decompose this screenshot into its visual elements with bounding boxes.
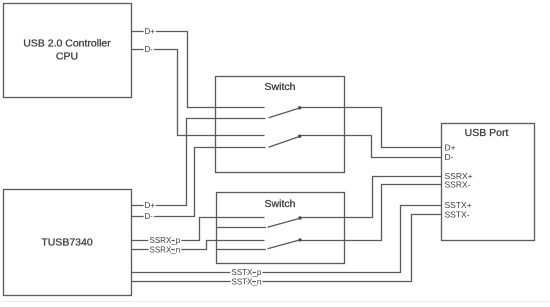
svg-text:CPU: CPU (56, 51, 78, 63)
svg-text:TUSB7340: TUSB7340 (41, 237, 93, 249)
switch1 output A to USB Port D+ (300, 108, 442, 148)
box: USB Port (442, 124, 535, 241)
wire: TUSB7340 D+ up to switch1 lower contact A (132, 119, 266, 206)
svg-text:SSTX+: SSTX+ (445, 200, 472, 210)
wire: TUSB7340 D- up to switch1 lower contact B (132, 148, 266, 217)
switch2 arm A (268, 218, 301, 227)
svg-text:SSTX-: SSTX- (445, 210, 470, 220)
box: TUSB7340 (4, 190, 132, 296)
switch1 arm A (269, 108, 300, 118)
switch1 pole dot A (298, 106, 301, 109)
svg-text:SSRX-: SSRX- (445, 180, 471, 190)
wire: switch2 lower contact stub B (217, 249, 267, 251)
svg-text:D-: D- (145, 45, 154, 54)
faint page rule at bottom (0, 301, 550, 303)
switch1 arm B (269, 136, 300, 147)
svg-text:SSRX_n: SSRX_n (150, 246, 181, 255)
box: Switch (upper) (216, 77, 345, 173)
svg-text:D+: D+ (145, 27, 156, 36)
svg-text:Switch: Switch (265, 198, 296, 210)
wire: TUSB7340 SSRX_n up to switch2 upper contact B (132, 241, 265, 250)
svg-text:D+: D+ (445, 143, 456, 153)
wire: switch2 lower contact stub A (217, 227, 267, 229)
svg-text:USB 2.0 Controller: USB 2.0 Controller (23, 38, 111, 50)
box: USB 2.0 Controller CPU (4, 4, 132, 98)
wire: SSTX_p from TUSB7340 to USB Port SSTX+ (132, 206, 442, 273)
switch2 pole dot A (298, 216, 301, 219)
svg-text:SSTX_n: SSTX_n (232, 278, 262, 287)
svg-text:USB Port: USB Port (465, 127, 509, 139)
wire: CPU D+ to switch1 upper contact A (132, 32, 265, 108)
switch2 pole dot B (298, 238, 301, 241)
box: Switch (lower) (217, 193, 345, 264)
wire: SSTX_n from TUSB7340 to USB Port SSTX- (132, 215, 442, 282)
switch2 output B to USB Port SSRX- (300, 185, 442, 241)
switch1 pole dot B (298, 135, 301, 138)
wire: CPU D- to switch1 upper contact B (132, 50, 265, 136)
svg-text:D+: D+ (145, 201, 156, 210)
svg-text:D-: D- (145, 212, 154, 221)
svg-text:SSRX_p: SSRX_p (150, 236, 181, 245)
wire: TUSB7340 SSRX_p up to switch2 upper contact A (132, 218, 265, 241)
switch2 arm B (268, 240, 301, 249)
svg-text:Switch: Switch (265, 81, 296, 93)
svg-text:SSTX_p: SSTX_p (232, 268, 262, 277)
svg-text:D-: D- (445, 152, 454, 162)
switch1 output B to USB Port D- (300, 136, 442, 158)
switch2 output A to USB Port SSRX+ (300, 177, 442, 218)
